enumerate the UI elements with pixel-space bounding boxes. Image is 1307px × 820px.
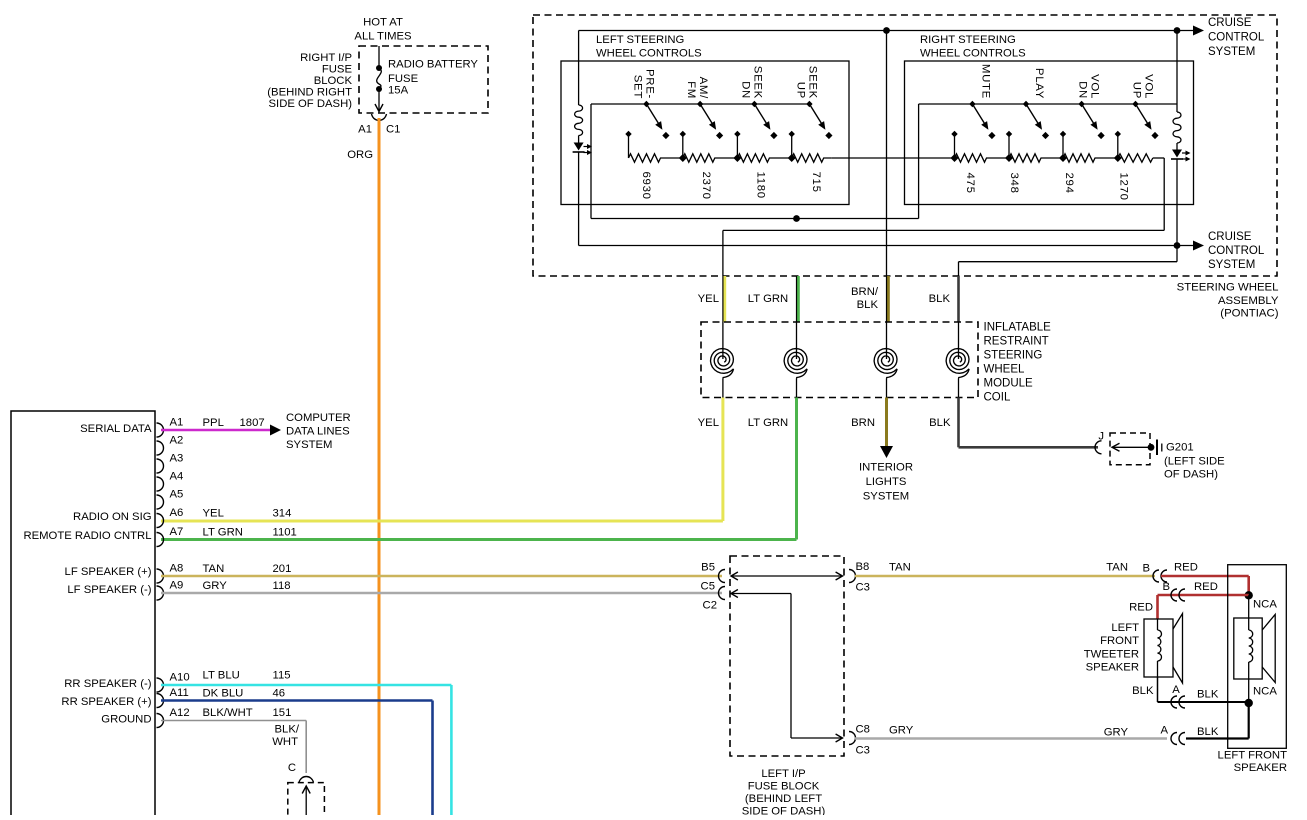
- svg-text:RR SPEAKER (-): RR SPEAKER (-): [64, 678, 151, 690]
- switch SEEK DN: [751, 101, 757, 107]
- svg-text:GRY: GRY: [1104, 727, 1129, 739]
- svg-text:TAN: TAN: [889, 562, 911, 574]
- svg-text:RADIO BATTERY: RADIO BATTERY: [388, 59, 478, 71]
- svg-text:ORG: ORG: [347, 149, 373, 161]
- svg-text:SERIAL DATA: SERIAL DATA: [80, 423, 152, 435]
- svg-text:INTERIOR: INTERIOR: [859, 462, 913, 474]
- node junction cruise lower: [1174, 242, 1181, 249]
- svg-text:BLK: BLK: [1197, 726, 1219, 738]
- svg-text:RR SPEAKER (+): RR SPEAKER (+): [61, 696, 151, 708]
- svg-text:RIGHT STEERING: RIGHT STEERING: [920, 34, 1016, 46]
- svg-text:C3: C3: [856, 745, 870, 757]
- steering wheel assembly boundary (dashed box): [533, 15, 1277, 276]
- node junction resistor row: [679, 154, 687, 162]
- svg-text:STEERING: STEERING: [984, 350, 1043, 362]
- svg-text:LT GRN: LT GRN: [748, 293, 788, 305]
- svg-text:FUSE: FUSE: [322, 64, 353, 76]
- svg-text:715: 715: [810, 172, 822, 193]
- svg-text:A1: A1: [358, 124, 372, 136]
- svg-text:SYSTEM: SYSTEM: [1208, 259, 1255, 271]
- wire GRY to speaker: [855, 737, 1167, 740]
- resistor 348: [1009, 154, 1063, 162]
- wire BRN/BLK vertical from top bus: [886, 31, 888, 277]
- svg-text:BRN/: BRN/: [851, 286, 879, 298]
- wire left LED branch vertical: [578, 31, 580, 106]
- svg-text:15A: 15A: [388, 85, 409, 97]
- svg-text:YEL: YEL: [698, 417, 719, 429]
- svg-text:C2: C2: [703, 600, 717, 612]
- svg-text:LEFT: LEFT: [1111, 622, 1139, 634]
- connector pin A6: [157, 514, 164, 528]
- svg-text:SYSTEM: SYSTEM: [286, 439, 332, 451]
- svg-text:(LEFT SIDE: (LEFT SIDE: [1164, 456, 1225, 468]
- svg-text:SPEAKER: SPEAKER: [1086, 662, 1139, 674]
- svg-text:PRE-: PRE-: [643, 69, 655, 99]
- svg-text:C5: C5: [701, 581, 715, 593]
- arrow to computer data lines: [270, 425, 281, 436]
- svg-text:151: 151: [273, 707, 292, 719]
- connector B half-moons (second): [1171, 589, 1177, 601]
- svg-text:A2: A2: [170, 435, 184, 447]
- svg-text:475: 475: [964, 173, 976, 194]
- svg-text:BLK: BLK: [857, 299, 879, 311]
- connector pin A2: [157, 441, 164, 455]
- wire left-to-right bus bottom: [591, 218, 919, 220]
- connector B half-moons (top): [1153, 570, 1159, 582]
- svg-text:UP: UP: [1131, 82, 1143, 99]
- LED right illumination: [1172, 150, 1182, 158]
- wire TAN to fuse block: [161, 575, 722, 578]
- svg-text:BLK: BLK: [1197, 689, 1219, 701]
- wire LT GRN (into coil): [797, 276, 800, 322]
- svg-text:WHT: WHT: [272, 736, 298, 748]
- svg-text:LF SPEAKER (-): LF SPEAKER (-): [67, 584, 151, 596]
- node junction resistor row right: [951, 154, 959, 162]
- svg-text:A3: A3: [170, 453, 184, 465]
- svg-text:294: 294: [1063, 173, 1075, 194]
- connector pin A10: [157, 678, 164, 692]
- svg-text:LEFT I/P: LEFT I/P: [761, 768, 805, 780]
- svg-text:1101: 1101: [273, 527, 297, 539]
- wire BLK to ground: [957, 398, 960, 448]
- resistor 475: [955, 154, 1010, 162]
- svg-text:YEL: YEL: [698, 293, 719, 305]
- svg-text:(PONTIAC): (PONTIAC): [1220, 308, 1278, 320]
- resistor 6930: [629, 154, 683, 162]
- node junction NCA bottom: [1245, 699, 1253, 707]
- svg-text:COIL: COIL: [984, 392, 1011, 404]
- wire LT BLU: [161, 684, 451, 687]
- svg-text:TAN: TAN: [203, 563, 225, 575]
- svg-text:C: C: [288, 762, 296, 774]
- svg-text:C3: C3: [856, 582, 870, 594]
- svg-text:UP: UP: [794, 82, 806, 99]
- wire YEL below coil: [721, 398, 724, 522]
- switch contact stub: [951, 131, 957, 137]
- svg-text:A11: A11: [170, 687, 189, 699]
- svg-text:118: 118: [273, 580, 291, 592]
- svg-text:DATA LINES: DATA LINES: [286, 426, 350, 438]
- switch PRE-SET: [643, 101, 649, 107]
- svg-text:SEEK: SEEK: [806, 66, 818, 99]
- svg-text:LIGHTS: LIGHTS: [866, 476, 907, 488]
- wire LT GRN below coil: [795, 398, 798, 540]
- left front speaker box: [1228, 565, 1287, 749]
- connector C half-moon: [299, 777, 314, 783]
- svg-text:A8: A8: [170, 563, 184, 575]
- svg-text:LF SPEAKER (+): LF SPEAKER (+): [65, 566, 152, 578]
- svg-text:DK BLU: DK BLU: [203, 688, 244, 700]
- wire RED feed: [1161, 575, 1249, 578]
- connector B5 half-moon: [719, 570, 725, 583]
- svg-text:WHEEL: WHEEL: [984, 364, 1026, 376]
- svg-text:MUTE: MUTE: [979, 64, 991, 99]
- connector pin A5: [157, 495, 164, 509]
- svg-text:LT GRN: LT GRN: [748, 417, 788, 429]
- svg-text:A4: A4: [170, 471, 184, 483]
- wire BRN below coil: [885, 398, 888, 447]
- svg-text:BLK/WHT: BLK/WHT: [203, 707, 253, 719]
- switch contact stub: [734, 131, 740, 137]
- svg-text:PLAY: PLAY: [1033, 68, 1045, 99]
- switch contact stub: [625, 131, 631, 137]
- wire BRN/BLK (into coil): [887, 276, 890, 322]
- svg-text:A6: A6: [170, 507, 184, 519]
- connector pin A12: [157, 714, 164, 728]
- svg-text:WHEEL CONTROLS: WHEEL CONTROLS: [596, 48, 702, 60]
- switch VOL DN: [1078, 101, 1084, 107]
- svg-text:SYSTEM: SYSTEM: [1208, 46, 1255, 58]
- wire top bus to cruise control: [579, 30, 1196, 32]
- svg-text:TAN: TAN: [1106, 562, 1128, 574]
- svg-text:VOL: VOL: [1089, 74, 1101, 99]
- svg-text:C1: C1: [386, 124, 400, 136]
- svg-text:TWEETER: TWEETER: [1084, 649, 1139, 661]
- LED left illumination: [574, 143, 584, 151]
- wire BLK speaker return: [1186, 737, 1249, 739]
- left front speaker symbol: [1248, 595, 1250, 618]
- svg-text:AM/: AM/: [697, 77, 709, 99]
- wire right switch bus: [919, 103, 1177, 105]
- svg-text:COMPUTER: COMPUTER: [286, 412, 351, 424]
- svg-text:VOL: VOL: [1143, 74, 1155, 99]
- connector pin A4: [157, 477, 164, 491]
- svg-text:FUSE: FUSE: [388, 73, 419, 85]
- svg-text:WHEEL CONTROLS: WHEEL CONTROLS: [920, 48, 1026, 60]
- svg-text:348: 348: [1008, 173, 1020, 194]
- svg-text:PPL: PPL: [203, 417, 224, 429]
- svg-text:1807: 1807: [240, 417, 265, 429]
- svg-text:6930: 6930: [640, 172, 652, 200]
- wire cruise bus lower: [579, 245, 1177, 247]
- wire RED tweeter branch: [1158, 594, 1249, 597]
- resistor left illumination: [575, 105, 583, 136]
- svg-text:BRN: BRN: [851, 417, 875, 429]
- svg-text:A7: A7: [170, 526, 184, 538]
- svg-text:A1: A1: [170, 417, 184, 429]
- svg-text:BLK/: BLK/: [275, 724, 300, 736]
- svg-text:GROUND: GROUND: [101, 714, 151, 726]
- connector pin A1: [157, 423, 164, 437]
- switch contact stub: [1115, 131, 1121, 137]
- wire BLK tweeter: [1157, 677, 1159, 702]
- left I/P fuse block (dashed box): [730, 556, 844, 756]
- svg-text:SET: SET: [631, 75, 643, 99]
- switch contact stub: [789, 131, 795, 137]
- wire resistor chain to YEL drop: [1153, 157, 1164, 159]
- svg-text:HOT AT: HOT AT: [363, 17, 403, 29]
- wire resistor row link: [832, 157, 955, 159]
- ground C dashed box: [288, 783, 325, 820]
- svg-text:115: 115: [273, 670, 291, 682]
- svg-text:SIDE OF DASH): SIDE OF DASH): [269, 98, 353, 110]
- svg-text:DN: DN: [1077, 81, 1089, 99]
- svg-text:J: J: [1098, 431, 1104, 443]
- svg-text:GRY: GRY: [889, 725, 914, 737]
- switch MUTE: [969, 101, 975, 107]
- svg-text:CRUISE: CRUISE: [1208, 231, 1252, 243]
- switch AM/FM: [697, 101, 703, 107]
- right I/P fuse block (dashed box): [359, 46, 488, 113]
- resistor 1180: [737, 154, 791, 162]
- inflatable restraint steering wheel module coil (dashed box): [701, 322, 978, 398]
- wire left switch bus: [591, 103, 809, 105]
- svg-text:LT BLU: LT BLU: [203, 670, 240, 682]
- resistor 715: [792, 154, 832, 162]
- svg-text:A9: A9: [170, 580, 184, 592]
- ground G201 symbol: [1112, 443, 1120, 451]
- clockspring coil 1 (YEL): [722, 322, 724, 359]
- connector pin A11: [157, 694, 164, 708]
- svg-text:FM: FM: [685, 81, 697, 99]
- svg-text:B8: B8: [856, 561, 870, 573]
- right steering wheel controls box: [905, 61, 1194, 205]
- node junction BRN/BLK tap: [883, 27, 890, 34]
- svg-text:MODULE: MODULE: [984, 378, 1034, 390]
- connector J half-moon: [1095, 441, 1102, 454]
- svg-text:SEEK: SEEK: [751, 66, 763, 99]
- svg-text:1180: 1180: [755, 172, 767, 199]
- arrow to interior lights: [880, 446, 893, 458]
- switch SEEK UP: [806, 101, 812, 107]
- connector pin A3: [157, 459, 164, 473]
- arrow to cruise control (lower): [1177, 245, 1196, 247]
- wire YEL (into coil): [723, 276, 726, 322]
- fuse RADIO BATTERY FUSE 15A: [378, 46, 380, 68]
- clockspring coil 4 (BLK): [958, 322, 960, 359]
- wire DK BLU: [161, 699, 433, 702]
- svg-text:A: A: [1160, 725, 1168, 737]
- svg-text:RED: RED: [1129, 602, 1153, 614]
- wire left bus drop: [590, 104, 592, 219]
- svg-text:INFLATABLE: INFLATABLE: [984, 322, 1052, 334]
- svg-text:2370: 2370: [700, 172, 712, 200]
- svg-text:B5: B5: [701, 562, 715, 574]
- wire GRY to fuse block: [161, 592, 722, 595]
- svg-text:C8: C8: [856, 724, 870, 736]
- svg-text:BLK: BLK: [1132, 685, 1154, 697]
- svg-text:SYSTEM: SYSTEM: [863, 491, 909, 503]
- svg-text:BLK: BLK: [929, 293, 951, 305]
- wire PPL serial data: [161, 429, 270, 432]
- wire TAN to speaker: [855, 575, 1155, 578]
- svg-text:ASSEMBLY: ASSEMBLY: [1218, 295, 1279, 307]
- clockspring coil 2 (LT GRN): [796, 322, 798, 359]
- svg-text:46: 46: [273, 688, 286, 700]
- node junction LT GRN tap: [793, 215, 800, 222]
- wire ORG (orange battery feed): [378, 118, 381, 815]
- svg-text:201: 201: [273, 563, 292, 575]
- connector C5 half-moon: [719, 587, 725, 600]
- svg-text:CONTROL: CONTROL: [1208, 245, 1265, 257]
- resistor right illumination: [1173, 112, 1181, 143]
- svg-text:A: A: [1172, 684, 1180, 696]
- radio box: [11, 411, 155, 816]
- svg-text:B: B: [1142, 563, 1150, 575]
- node junction NCA top: [1245, 591, 1253, 599]
- svg-text:CONTROL: CONTROL: [1208, 32, 1265, 44]
- connector pin A7: [157, 533, 164, 547]
- svg-text:SPEAKER: SPEAKER: [1234, 762, 1287, 774]
- svg-text:A5: A5: [170, 489, 184, 501]
- svg-text:RED: RED: [1174, 562, 1198, 574]
- wire right LED branch vertical: [1176, 31, 1178, 113]
- svg-text:314: 314: [273, 508, 292, 520]
- ground G201 dashed box: [1110, 433, 1150, 465]
- node junction cruise tap: [1174, 27, 1181, 34]
- connector pin A9: [157, 586, 164, 600]
- connector A half-moons (tweeter): [1171, 696, 1177, 708]
- svg-text:G201: G201: [1166, 442, 1194, 454]
- resistor 294: [1063, 154, 1118, 162]
- svg-text:LEFT STEERING: LEFT STEERING: [596, 34, 684, 46]
- svg-text:REMOTE RADIO CNTRL: REMOTE RADIO CNTRL: [23, 530, 151, 542]
- fuse block TAN through-path: [731, 575, 843, 577]
- svg-text:A12: A12: [170, 707, 190, 719]
- fuse block GRY through-path: [731, 593, 791, 595]
- switch contact stub: [1006, 131, 1012, 137]
- clockspring coil 3 (BRN): [886, 322, 888, 359]
- wire right bus rise: [918, 104, 920, 219]
- svg-text:RESTRAINT: RESTRAINT: [984, 336, 1049, 348]
- svg-text:CRUISE: CRUISE: [1208, 17, 1252, 29]
- svg-text:ALL TIMES: ALL TIMES: [354, 31, 412, 43]
- connector A1/C1 half-moon: [372, 114, 387, 120]
- arrow to cruise control (top): [1193, 26, 1204, 36]
- svg-text:NCA: NCA: [1253, 686, 1277, 698]
- connector C8 half-moon: [849, 732, 856, 745]
- resistor 1270: [1118, 154, 1153, 162]
- ground C arrow: [305, 786, 307, 815]
- resistor 2370: [683, 154, 738, 162]
- connector pin A8: [157, 569, 164, 583]
- svg-text:A10: A10: [170, 672, 190, 684]
- svg-text:BLOCK: BLOCK: [314, 75, 353, 87]
- svg-text:FRONT: FRONT: [1100, 635, 1139, 647]
- svg-text:SIDE OF DASH): SIDE OF DASH): [742, 806, 826, 816]
- svg-text:STEERING WHEEL: STEERING WHEEL: [1177, 282, 1279, 294]
- wire BLK feed from LED chain: [1176, 246, 1178, 262]
- svg-text:LEFT FRONT: LEFT FRONT: [1218, 750, 1288, 762]
- svg-text:OF DASH): OF DASH): [1164, 469, 1218, 481]
- connector A half-moons (bottom): [1171, 733, 1177, 745]
- svg-text:1270: 1270: [1118, 173, 1130, 201]
- svg-text:RADIO ON SIG: RADIO ON SIG: [73, 511, 151, 523]
- svg-text:DN: DN: [739, 81, 751, 99]
- switch VOL UP: [1132, 101, 1138, 107]
- connector B8 half-moon: [849, 570, 856, 583]
- svg-text:GRY: GRY: [203, 580, 228, 592]
- svg-text:FUSE BLOCK: FUSE BLOCK: [748, 781, 820, 793]
- wire BLK/WHT ground lead: [161, 720, 306, 722]
- switch contact stub: [680, 131, 686, 137]
- svg-text:BLK: BLK: [929, 417, 951, 429]
- svg-text:(BEHIND LEFT: (BEHIND LEFT: [745, 793, 822, 805]
- svg-text:RIGHT I/P: RIGHT I/P: [300, 52, 352, 64]
- svg-text:RED: RED: [1194, 581, 1218, 593]
- left front tweeter speaker symbol: [1144, 619, 1173, 677]
- svg-text:B: B: [1162, 581, 1170, 593]
- left steering wheel controls box: [561, 61, 849, 205]
- svg-text:YEL: YEL: [203, 508, 224, 520]
- wire BLK (into coil): [957, 276, 960, 322]
- svg-text:(BEHIND RIGHT: (BEHIND RIGHT: [267, 87, 352, 99]
- svg-text:NCA: NCA: [1253, 599, 1277, 611]
- switch PLAY: [1023, 101, 1029, 107]
- svg-text:LT GRN: LT GRN: [203, 527, 243, 539]
- switch contact stub: [1060, 131, 1066, 137]
